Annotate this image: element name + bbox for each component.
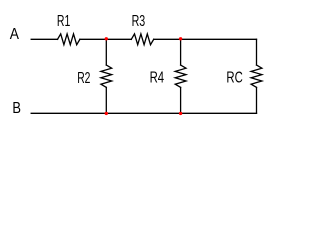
svg-text:R3: R3 (132, 13, 146, 30)
svg-text:A: A (10, 26, 19, 43)
svg-text:B: B (12, 100, 21, 117)
svg-text:RC: RC (226, 69, 242, 86)
svg-text:R4: R4 (150, 69, 165, 86)
svg-text:R1: R1 (57, 13, 70, 30)
svg-text:R2: R2 (77, 70, 90, 87)
